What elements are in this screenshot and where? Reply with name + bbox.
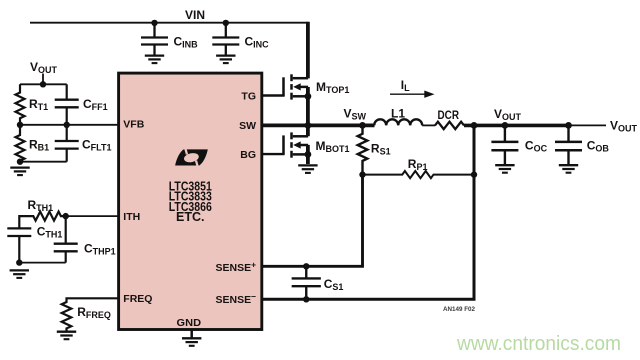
svg-text:MTOP1: MTOP1 bbox=[316, 80, 349, 95]
svg-text:CFLT1: CFLT1 bbox=[82, 138, 112, 153]
svg-text:SENSE+: SENSE+ bbox=[216, 259, 257, 274]
svg-text:SENSE−: SENSE− bbox=[216, 292, 257, 307]
svg-text:VSW: VSW bbox=[344, 106, 367, 121]
svg-text:VOUT: VOUT bbox=[494, 107, 522, 122]
svg-text:CINC: CINC bbox=[245, 34, 270, 49]
svg-text:RP1: RP1 bbox=[408, 157, 428, 172]
svg-text:VIN: VIN bbox=[185, 8, 205, 22]
svg-text:TG: TG bbox=[241, 90, 256, 102]
svg-text:ITH: ITH bbox=[123, 211, 140, 223]
svg-text:www.cntronics.com: www.cntronics.com bbox=[456, 332, 621, 355]
svg-text:L1: L1 bbox=[391, 107, 405, 121]
svg-text:AN149 F02: AN149 F02 bbox=[443, 306, 475, 313]
svg-text:RS1: RS1 bbox=[371, 142, 391, 157]
svg-text:DCR: DCR bbox=[438, 108, 460, 122]
svg-text:FREQ: FREQ bbox=[123, 293, 152, 305]
svg-text:CINB: CINB bbox=[174, 34, 199, 49]
svg-text:CS1: CS1 bbox=[324, 277, 344, 292]
svg-text:RTH1: RTH1 bbox=[28, 198, 54, 213]
svg-text:VOUT: VOUT bbox=[30, 60, 58, 75]
svg-text:MBOT1: MBOT1 bbox=[316, 139, 350, 154]
svg-text:VFB: VFB bbox=[123, 118, 144, 130]
svg-text:RB1: RB1 bbox=[29, 138, 49, 153]
svg-text:CFF1: CFF1 bbox=[83, 97, 108, 112]
svg-text:VOUT: VOUT bbox=[610, 119, 638, 134]
svg-text:COB: COB bbox=[587, 138, 610, 153]
svg-text:SW: SW bbox=[239, 120, 256, 132]
svg-text:RT1: RT1 bbox=[29, 97, 48, 112]
svg-text:COC: COC bbox=[525, 138, 548, 153]
svg-text:ETC.: ETC. bbox=[176, 210, 204, 224]
svg-text:IL: IL bbox=[401, 78, 410, 93]
svg-text:BG: BG bbox=[240, 149, 256, 161]
svg-text:GND: GND bbox=[177, 317, 202, 329]
svg-text:RFREQ: RFREQ bbox=[77, 305, 111, 320]
svg-text:CTH1: CTH1 bbox=[37, 224, 63, 239]
svg-text:CTHP1: CTHP1 bbox=[84, 242, 116, 257]
